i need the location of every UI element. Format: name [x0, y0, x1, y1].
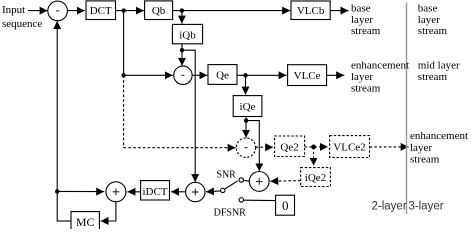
- node after Qb: [180, 8, 184, 12]
- svg-text:base: base: [351, 3, 371, 15]
- switch contact SNR: [239, 178, 243, 182]
- block VLCb: [291, 1, 330, 20]
- switch contact DFSNR: [239, 198, 243, 202]
- junction below iQb: [180, 48, 184, 52]
- block zero: [276, 195, 295, 215]
- adder A1: [106, 182, 126, 202]
- svg-text:enhancement: enhancement: [351, 60, 409, 72]
- svg-text:stream: stream: [351, 82, 381, 94]
- wire Qb to VLCb: [173, 10, 291, 12]
- svg-text:stream: stream: [418, 71, 448, 83]
- dashed block Qe2: [275, 136, 305, 157]
- dashed wire Qe2 node down to iQe2: [313, 147, 315, 166]
- adder A2: [186, 182, 205, 201]
- label enhancement layer stream (2-layer column): [351, 60, 409, 95]
- subtractor S1: [48, 1, 68, 21]
- dashed block VLCe2: [330, 136, 370, 158]
- svg-text:SNR: SNR: [216, 170, 236, 181]
- svg-text:base: base: [418, 3, 438, 15]
- dashed block iQe2: [301, 168, 331, 187]
- svg-text:layer: layer: [351, 14, 373, 26]
- wire node to S2: [124, 74, 173, 76]
- wire iQb to junction: [181, 44, 183, 50]
- dashed wire Qe2 to VLCe2: [305, 146, 328, 148]
- node on DCT line: [121, 73, 125, 77]
- wire junction to A1: [57, 190, 104, 192]
- svg-text:Qb: Qb: [152, 5, 166, 17]
- wire S2 to Qe: [192, 74, 207, 76]
- svg-text:iQe: iQe: [240, 101, 256, 113]
- wire S1 to DCT: [68, 10, 85, 12]
- wire iDCT to adder A1: [127, 191, 140, 193]
- label mid layer stream (3-layer column): [418, 60, 460, 84]
- wire VLCb to base layer stream: [330, 10, 348, 12]
- label enhancement layer stream (3-layer column): [410, 130, 468, 165]
- wire A2 to iDCT: [171, 191, 186, 193]
- block Qb: [145, 1, 173, 20]
- wire A3 to SNR contact: [243, 179, 249, 182]
- wire switch common to adder A2: [206, 190, 221, 193]
- svg-text:Input: Input: [2, 4, 25, 16]
- wire DCT to Qb: [116, 10, 144, 12]
- node after Qe: [243, 73, 247, 77]
- svg-text:DFSNR: DFSNR: [214, 207, 247, 218]
- svg-text:VLCb: VLCb: [297, 5, 325, 17]
- subtractor S2: [174, 66, 192, 84]
- label base layer stream (2-layer column): [351, 3, 381, 37]
- svg-text:VLCe: VLCe: [294, 70, 321, 82]
- node after Qe2: [311, 145, 316, 150]
- label base layer stream (3-layer column): [418, 3, 448, 37]
- wire Qe to VLCe: [237, 74, 287, 76]
- svg-text:layer: layer: [410, 142, 432, 154]
- block iQe: [233, 96, 262, 117]
- block VLCe: [288, 65, 327, 86]
- wire A1 down to MC: [101, 202, 116, 221]
- separator line between 2-layer and 3-layer columns: [406, 3, 408, 215]
- svg-text:3-layer: 3-layer: [408, 200, 443, 212]
- junction below iQe: [244, 118, 248, 122]
- block iQb: [172, 24, 202, 43]
- svg-text:DCT: DCT: [90, 5, 112, 17]
- switch lever: [225, 181, 238, 189]
- wire junction right and down to adder A2: [182, 50, 195, 182]
- wire DCT node down: [123, 11, 125, 76]
- subtractor S3 dashed: [236, 138, 255, 157]
- dashed wire iQe2 to adder A3: [270, 180, 300, 183]
- dashed wire S3 to Qe2: [256, 146, 274, 148]
- wire junction right and down to adder A3: [246, 121, 259, 172]
- wire input to subtractor S1: [28, 10, 48, 12]
- wire junction to subtractor S3: [245, 121, 247, 138]
- wire VLCe to enhancement layer stream: [327, 74, 345, 76]
- svg-text:stream: stream: [351, 25, 381, 37]
- svg-text:sequence: sequence: [2, 18, 42, 30]
- svg-text:layer: layer: [418, 14, 440, 26]
- wire DFSNR contact to zero box: [244, 199, 276, 201]
- wire iQe down to junction: [245, 117, 247, 121]
- svg-text:iDCT: iDCT: [142, 186, 167, 198]
- block DCT: [86, 1, 116, 20]
- wire Qe node down to iQe: [245, 75, 247, 94]
- block Qe: [208, 65, 237, 85]
- junction on feedback line: [55, 189, 59, 193]
- dashed wire VLCe2 to enhancement layer stream: [370, 146, 409, 148]
- svg-text:Qe2: Qe2: [280, 142, 298, 154]
- wire junction to subtractor S2: [181, 50, 183, 66]
- svg-text:0: 0: [282, 198, 289, 213]
- switch common contact: [221, 188, 225, 192]
- label Input sequence: [2, 4, 42, 30]
- block iDCT: [141, 181, 170, 200]
- block MC: [71, 212, 99, 231]
- svg-text:mid layer: mid layer: [418, 60, 460, 72]
- svg-text:iQb: iQb: [179, 30, 196, 42]
- svg-text:2-layer: 2-layer: [372, 200, 407, 212]
- feedback wire up to S1: [56, 21, 58, 221]
- svg-text:stream: stream: [410, 154, 440, 166]
- svg-text:VLCe2: VLCe2: [333, 142, 365, 154]
- svg-text:MC: MC: [76, 215, 95, 229]
- wire Qb node down to iQb: [181, 11, 183, 24]
- dashed wire DCT node down: [123, 75, 125, 147]
- wire MC output to feedback line: [57, 220, 71, 222]
- svg-text:enhancement: enhancement: [410, 130, 468, 142]
- svg-text:stream: stream: [418, 25, 448, 37]
- node after DCT: [121, 8, 125, 12]
- adder A3: [249, 172, 269, 192]
- svg-text:iQe2: iQe2: [305, 172, 326, 184]
- svg-text:Qe: Qe: [216, 70, 229, 82]
- dashed wire to subtractor S3: [124, 147, 236, 149]
